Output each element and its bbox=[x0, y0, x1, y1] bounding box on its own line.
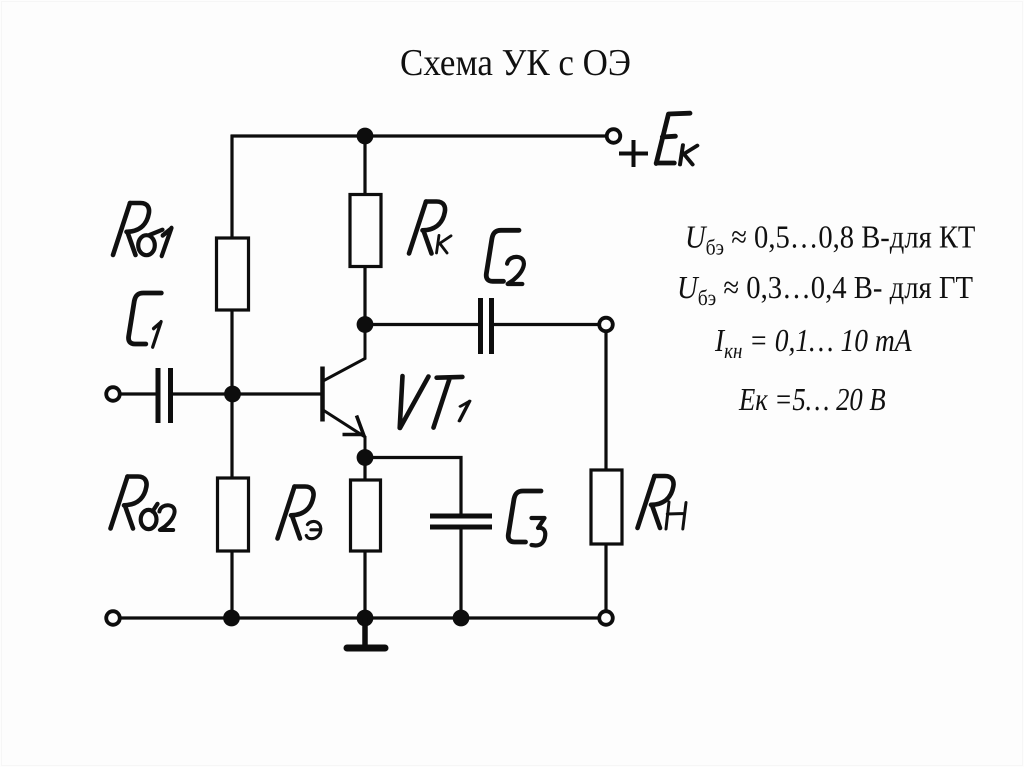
node Rb2 bottom junction bbox=[223, 610, 240, 627]
label C3 bbox=[508, 491, 545, 546]
resistor Re bbox=[351, 480, 381, 551]
wire output vertical bbox=[604, 331, 607, 612]
node top rail junction bbox=[357, 128, 374, 145]
wire C1 to base bbox=[173, 392, 321, 395]
wire Rk branch vertical bbox=[363, 136, 366, 325]
transistor VT1 bbox=[323, 326, 366, 457]
node base junction bbox=[224, 386, 241, 403]
terminal output top bbox=[599, 318, 613, 332]
label Rn bbox=[638, 476, 687, 529]
node emitter junction bbox=[357, 449, 374, 466]
wire top rail bbox=[231, 134, 607, 137]
terminal +Ek bbox=[607, 129, 621, 143]
capacitor C2 plates bbox=[481, 298, 492, 354]
label Rb1 bbox=[113, 203, 172, 256]
label Ek bbox=[656, 113, 697, 164]
capacitor C1 plates bbox=[158, 368, 171, 423]
svg-text:Eк =5… 20 В: Eк =5… 20 В bbox=[738, 381, 886, 417]
label Rk bbox=[409, 202, 451, 254]
plus sign of Ek bbox=[619, 140, 648, 167]
ground bbox=[347, 618, 385, 648]
label C2 bbox=[486, 230, 524, 284]
resistor Rb1 bbox=[217, 238, 249, 310]
terminal bottom right bbox=[599, 611, 613, 625]
resistor Rk bbox=[350, 195, 381, 267]
wire bottom rail bbox=[120, 616, 600, 619]
wire emitter vertical bbox=[363, 458, 366, 619]
svg-text:Uбэ ≈ 0,5…0,8 В-для КТ: Uбэ ≈ 0,5…0,8 В-для КТ bbox=[685, 219, 976, 260]
label VT1 bbox=[400, 376, 470, 428]
label Re bbox=[278, 487, 321, 539]
svg-text:Uбэ ≈ 0,3…0,4 В- для ГТ: Uбэ ≈ 0,3…0,4 В- для ГТ bbox=[677, 269, 973, 310]
resistor Rn bbox=[591, 470, 622, 544]
wire input to C1 bbox=[120, 392, 156, 395]
resistor Rb2 bbox=[218, 478, 249, 551]
wire left branch vertical bbox=[230, 135, 233, 619]
label Rb2 bbox=[111, 477, 175, 531]
terminal bottom left bbox=[106, 611, 120, 625]
wire emitter to C3 bbox=[365, 458, 461, 515]
wire C2 to output terminal bbox=[494, 323, 600, 326]
svg-text:Iкн = 0,1… 10 mA: Iкн = 0,1… 10 mA bbox=[714, 322, 912, 363]
capacitor C3 plates bbox=[430, 516, 492, 527]
label C1 bbox=[129, 293, 162, 347]
wire collector to C2 bbox=[365, 323, 478, 326]
svg-text:Схема УК с ОЭ: Схема УК с ОЭ bbox=[400, 42, 631, 84]
node ground junction bbox=[357, 610, 374, 627]
wire C3 bottom bbox=[459, 530, 462, 619]
node collector junction bbox=[357, 316, 374, 333]
terminal input bbox=[106, 387, 120, 401]
node C3 bottom junction bbox=[453, 610, 470, 627]
